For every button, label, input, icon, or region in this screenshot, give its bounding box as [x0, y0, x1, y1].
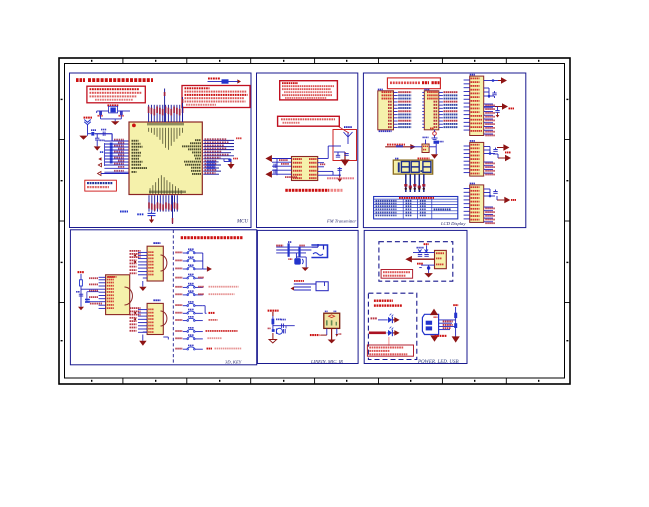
- capacitor C23: [288, 243, 290, 256]
- section label FM Transmitter: [326, 219, 356, 224]
- net labels linein: [276, 241, 305, 246]
- key switches S1-S12: [175, 248, 203, 350]
- ground G3: [94, 140, 101, 151]
- wire key common rows 1-3: [203, 253, 207, 269]
- dashed group LED: [368, 293, 416, 359]
- net arrow keys rows 1-3: [207, 266, 212, 271]
- net labels right pins: [205, 138, 229, 174]
- wire U3 pin1: [484, 79, 498, 82]
- capacitor C20: [148, 212, 156, 219]
- block border LINEIN MIC IR section: [257, 230, 358, 363]
- capacitor C31: [429, 141, 443, 155]
- wire U9 right pin: [335, 328, 341, 336]
- note box N8: [367, 345, 413, 356]
- wire DS1 bottom pins: [404, 174, 425, 192]
- pins U7: [130, 250, 154, 275]
- resistor R1: [91, 129, 96, 135]
- capacitor C19: [454, 313, 457, 318]
- capacitor bank C17: [413, 247, 435, 256]
- section label LCD Display: [440, 221, 466, 226]
- pins U4: [464, 144, 480, 175]
- wire left chain: [88, 125, 113, 141]
- net label pF: [100, 151, 103, 153]
- pins U6: [89, 276, 114, 309]
- net arrow LED D2: [393, 330, 400, 336]
- net label mic: [268, 310, 279, 312]
- net arrow usb gnd: [452, 336, 460, 342]
- net labels left pins: [114, 139, 124, 172]
- net arrow antenna feed: [341, 152, 350, 166]
- note text D1 title: [76, 78, 153, 82]
- note text key title: [181, 236, 243, 239]
- key annotation row10: [206, 330, 238, 332]
- wire crystal loop: [97, 111, 122, 119]
- note box N4: [280, 81, 338, 100]
- jack J3: [311, 244, 327, 258]
- note box N6: [387, 78, 440, 89]
- connector J2: [424, 89, 439, 130]
- dashed group power: [379, 242, 453, 282]
- capacitor C9a: [495, 107, 499, 118]
- capacitor C25: [288, 258, 303, 265]
- block border MCU section: [70, 73, 252, 228]
- net arrow U2 row5: [265, 171, 272, 178]
- net arrow J4: [291, 287, 295, 291]
- USB connector J5: [422, 314, 438, 334]
- net label rows 7-8: [209, 312, 215, 314]
- capacitor C28: [272, 329, 275, 332]
- wire U2 left pins: [272, 159, 292, 176]
- ground G9: [78, 307, 84, 311]
- wire USB data: [439, 320, 456, 330]
- wire U8 gnd: [143, 332, 169, 341]
- IR receiver U9: [324, 311, 340, 329]
- wire U3 right lower pins: [484, 104, 495, 136]
- key annotation row5: [198, 286, 238, 288]
- wire C7 branch: [339, 167, 341, 176]
- LED D2: [369, 327, 393, 337]
- wire U1 right pins: [203, 140, 234, 174]
- ground G5: [337, 175, 342, 182]
- divider line 3D KEY: [172, 230, 174, 365]
- symbol below J2: [430, 128, 438, 140]
- note text above DS1: [395, 158, 429, 160]
- capacitor C2: [119, 111, 124, 117]
- block border FM Transmitter section: [257, 73, 358, 228]
- microphone MK1: [268, 328, 283, 335]
- LCD driver U4: [470, 140, 484, 176]
- net label at junction: [233, 158, 238, 160]
- sheet outer border frame: [59, 58, 570, 384]
- capacitor C26: [272, 319, 282, 325]
- pins U5: [464, 186, 480, 220]
- wire U7 gnd: [143, 278, 147, 287]
- wire U2 right pins: [318, 146, 341, 175]
- power flag +5V: [78, 271, 84, 273]
- wire linein rows: [276, 247, 311, 253]
- net arrow U3 5V: [484, 103, 514, 109]
- note box N7: [381, 270, 413, 279]
- note text power 1: [374, 300, 402, 307]
- pin name labels inside U1: [132, 123, 202, 194]
- note text usb: [435, 335, 447, 337]
- ground G14: [269, 333, 277, 343]
- LCD glass DS1: [393, 160, 432, 174]
- wire U5 right lower pins: [484, 207, 495, 224]
- section label LINEIN MIC IR: [310, 359, 343, 365]
- junction dot power: [427, 265, 430, 273]
- LED D1: [371, 314, 394, 324]
- key annotation row12: [207, 348, 242, 350]
- block border LCD Display section: [363, 73, 525, 228]
- capacitor C3: [101, 129, 106, 136]
- note box N1: [87, 86, 145, 103]
- key annotation row6: [198, 293, 234, 295]
- net arrow A1: [98, 157, 101, 161]
- key annotation row11: [207, 337, 221, 339]
- power symbol VCC: [84, 117, 93, 125]
- transistor Q1: [422, 137, 429, 153]
- wire U9 mid pin: [331, 328, 333, 339]
- net label power 5V: [417, 263, 423, 265]
- svg-text:POWER, LED, USB: POWER, LED, USB: [417, 360, 459, 365]
- net arrow U4 loop: [493, 154, 511, 161]
- wire U3 mid pins: [484, 88, 494, 98]
- capacitor C6: [334, 152, 345, 157]
- svg-text:FM Transmitter: FM Transmitter: [326, 219, 356, 224]
- svg-text:MCU: MCU: [236, 220, 249, 225]
- net arrow U3 pin1: [498, 77, 507, 83]
- resistor array RN2: [207, 161, 216, 170]
- ground G4: [228, 162, 235, 169]
- antenna box outline: [333, 130, 357, 161]
- power flag +5V top: [424, 243, 429, 252]
- capacitor C27: [281, 319, 286, 328]
- net arrow LED D1: [393, 317, 400, 323]
- capacitor C8: [492, 91, 496, 98]
- wire mic stem: [273, 312, 295, 329]
- microcontroller U1: [129, 122, 202, 195]
- inductor FB1: [208, 78, 242, 84]
- capacitor C12: [85, 299, 90, 303]
- net label below: [90, 303, 102, 305]
- resistor R2: [80, 274, 83, 307]
- capacitor C4: [95, 134, 105, 142]
- capacitor C10: [493, 190, 497, 194]
- capacitor C11: [76, 291, 83, 296]
- table LCD pin map: [374, 197, 458, 219]
- capacitor C9: [493, 148, 497, 152]
- net arrow power: [405, 256, 434, 263]
- wire U4 right lower pins: [484, 162, 495, 175]
- wire linein mid: [296, 253, 306, 264]
- net label U9: [310, 334, 319, 336]
- wire LED down: [388, 337, 390, 346]
- pins and labels J2: [422, 91, 457, 128]
- section label POWER LED USB: [417, 360, 459, 365]
- block border 3D KEY section: [70, 230, 256, 365]
- net arrow long: [385, 144, 422, 150]
- pins U8: [130, 307, 154, 333]
- ground G13: [302, 264, 309, 271]
- key annotation row4: [198, 277, 204, 279]
- wire U4 top pins: [484, 147, 495, 155]
- wire R2 to U6: [81, 288, 99, 290]
- capacitor C24: [298, 247, 300, 257]
- wire U5 top pins: [484, 189, 495, 197]
- capacitor C29: [283, 329, 285, 333]
- net label right of chip: [320, 164, 354, 180]
- ground G18: [149, 216, 154, 223]
- wire USB vbus: [453, 304, 458, 338]
- ground G16: [328, 340, 336, 344]
- wire U10 bottom: [419, 265, 434, 268]
- key scan chip U8: [147, 299, 167, 334]
- note box N5: [278, 116, 340, 126]
- key annotation row9: [209, 319, 218, 321]
- wire U1 bottom pins: [148, 195, 178, 224]
- resistor array RN1: [110, 143, 113, 164]
- block border POWER LED USB section: [364, 230, 467, 363]
- FM transmitter chip U2: [292, 157, 318, 181]
- pins and labels J1: [382, 91, 412, 128]
- wire U1 top pins: [148, 89, 184, 123]
- 3D chip U6: [106, 275, 133, 315]
- net arrow U4 5V: [497, 144, 511, 153]
- antenna ANT1: [344, 126, 353, 144]
- net labels far right: [236, 137, 242, 139]
- pin labels inside U2: [293, 158, 317, 179]
- net label VSS: [120, 211, 143, 216]
- wire key common rows 7-8: [203, 306, 207, 314]
- regulator U10: [435, 250, 447, 268]
- border grid reference letters: [61, 60, 569, 382]
- note box N3: [85, 180, 117, 191]
- net arrow A3: [98, 172, 130, 176]
- LCD driver U5: [470, 183, 484, 223]
- capacitor C7: [338, 169, 342, 171]
- capacitor C30: [454, 323, 457, 328]
- note box N2: [182, 86, 250, 108]
- ground G17: [424, 273, 433, 277]
- capacitor C1: [98, 111, 103, 117]
- section label 3D KEY: [225, 360, 242, 366]
- border grid reference tick marks: [59, 58, 570, 384]
- wire loop U6: [87, 292, 99, 302]
- ground G19: [431, 154, 438, 159]
- net arrow U2 row1: [265, 155, 272, 162]
- ground G11: [139, 287, 146, 291]
- note text FM GND: [285, 189, 342, 192]
- key scan chip U7: [147, 242, 167, 281]
- ground G12: [139, 341, 146, 346]
- net arrow A2: [98, 163, 101, 167]
- jack J4: [294, 280, 328, 291]
- wire U9 left pin: [320, 328, 327, 336]
- ground G2: [79, 134, 87, 140]
- wire left pin rows: [95, 134, 129, 172]
- net arrow U5 P20: [497, 196, 516, 203]
- net labels U2 left: [279, 159, 297, 178]
- wire right bus: [224, 158, 231, 163]
- sheet inner border frame: [65, 64, 565, 379]
- net arrow USB up: [430, 309, 438, 316]
- connector J1: [378, 89, 394, 133]
- ground for crystal: [111, 119, 119, 125]
- leader line N5 to antenna: [338, 126, 349, 133]
- section label MCU: [236, 220, 249, 225]
- crystal Y1: [97, 104, 130, 113]
- capacitor C22: [274, 164, 276, 174]
- net arrow USB down: [430, 335, 438, 341]
- LCD driver U3: [470, 74, 484, 136]
- capacitor C21: [344, 154, 348, 156]
- pins U3: [464, 78, 482, 132]
- svg-text:LCD Display: LCD Display: [440, 221, 466, 226]
